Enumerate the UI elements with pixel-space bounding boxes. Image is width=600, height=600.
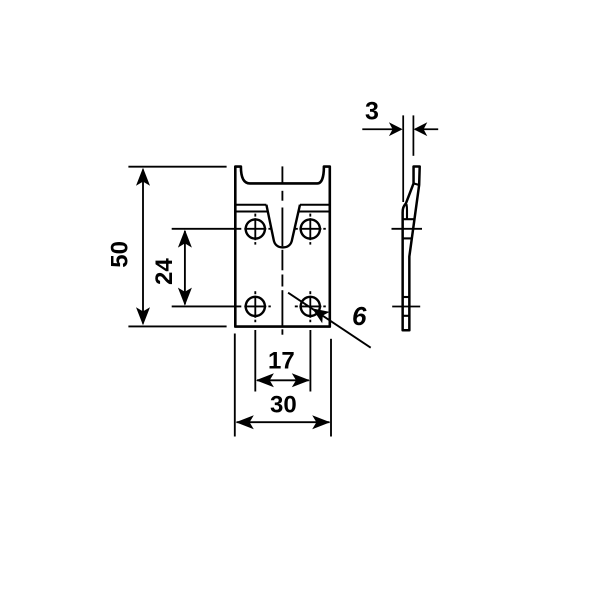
svg-text:30: 30 bbox=[270, 392, 297, 419]
svg-text:24: 24 bbox=[151, 258, 178, 285]
svg-text:50: 50 bbox=[106, 241, 133, 268]
svg-text:6: 6 bbox=[352, 301, 367, 331]
svg-text:3: 3 bbox=[365, 98, 379, 126]
svg-text:17: 17 bbox=[268, 347, 295, 374]
